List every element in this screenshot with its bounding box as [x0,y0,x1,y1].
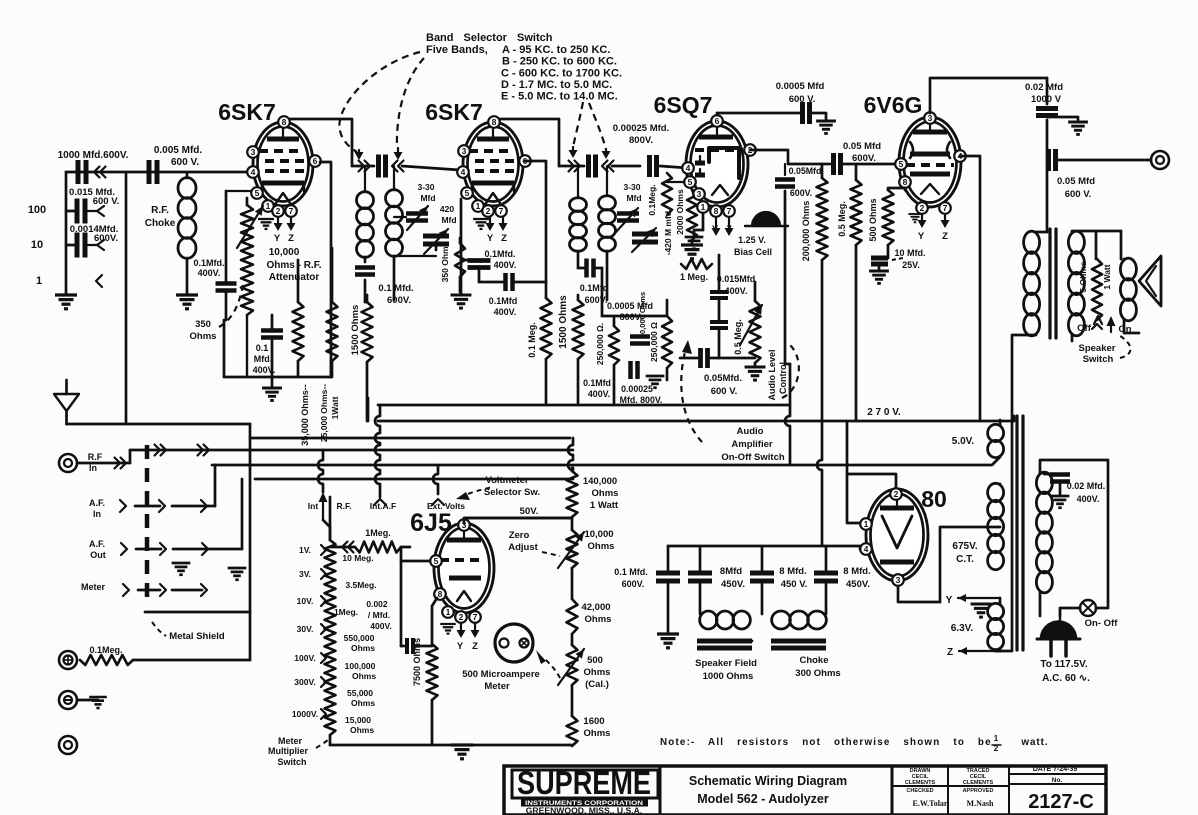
svg-text:0.1Meg.: 0.1Meg. [647,184,657,215]
svg-text:1 Meg.: 1 Meg. [680,272,708,282]
svg-text:100,000: 100,000 [345,661,376,671]
svg-text:1000 Ohms: 1000 Ohms [703,671,754,682]
svg-text:8 Mfd.: 8 Mfd. [843,566,870,577]
svg-text:Z: Z [942,231,948,242]
svg-text:Voltmeter: Voltmeter [485,475,528,486]
svg-text:Ohms: Ohms [352,671,376,681]
svg-text:0.1Mfd.: 0.1Mfd. [484,249,515,259]
svg-text:1500 Ohms: 1500 Ohms [350,305,361,356]
svg-text:42,000: 42,000 [581,602,610,613]
svg-text:1Meg.: 1Meg. [365,528,391,538]
svg-text:/ Mfd.: / Mfd. [368,610,390,620]
svg-text:A.C. 60 ∿.: A.C. 60 ∿. [1042,673,1090,684]
svg-text:Mfd. 800V.: Mfd. 800V. [620,395,663,405]
svg-text:On- Off: On- Off [1085,618,1119,629]
svg-text:4: 4 [461,167,466,177]
svg-text:500 Microampere: 500 Microampere [462,669,540,680]
svg-text:M.Nash: M.Nash [967,799,994,808]
svg-text:Five Bands,: Five Bands, [426,44,488,56]
svg-text:5: 5 [899,159,904,169]
svg-text:CLEMENTS: CLEMENTS [963,780,994,786]
svg-text:0.05Mfd.: 0.05Mfd. [704,373,742,384]
svg-text:1Watt: 1Watt [330,396,340,419]
svg-text:Ohms: Ohms [584,728,611,739]
svg-text:0.015Mfd: 0.015Mfd [717,274,756,284]
svg-text:R.F: R.F [88,452,103,462]
svg-text:600 V.: 600 V. [789,94,816,105]
svg-text:Z: Z [947,647,953,658]
svg-text:4: 4 [864,544,869,554]
svg-text:1: 1 [476,201,481,211]
svg-text:C - 600 KC. to 1700 KC.: C - 600 KC. to 1700 KC. [501,68,622,80]
svg-text:2: 2 [459,612,464,622]
svg-text:1 Watt: 1 Watt [590,500,619,511]
svg-text:D - 1.7 MC. to 5.0 MC.: D - 1.7 MC. to 5.0 MC. [501,79,612,91]
svg-text:7500 Ohms: 7500 Ohms [412,638,422,686]
svg-text:Y: Y [712,224,719,235]
svg-text:0.0005 Mfd: 0.0005 Mfd [776,81,825,92]
svg-text:Note:- All resistors not ot: Note:- All resistors not otherwise shown… [660,737,992,748]
svg-text:140,000: 140,000 [583,476,617,487]
svg-text:3: 3 [462,146,467,156]
svg-text:Switch: Switch [277,757,306,767]
svg-text:25,000 Ohms--: 25,000 Ohms-- [319,384,329,442]
svg-text:0.1Mfd: 0.1Mfd [583,378,611,388]
svg-text:7: 7 [499,206,504,216]
svg-text:Ohms - R.F.: Ohms - R.F. [266,260,321,271]
svg-text:Int: Int [308,501,319,511]
svg-text:1.25 V.: 1.25 V. [738,235,766,245]
svg-text:0.00025 Mfd.: 0.00025 Mfd. [613,123,670,134]
svg-text:A.F.: A.F. [89,539,105,549]
svg-text:7: 7 [943,203,948,213]
svg-text:3-30: 3-30 [623,182,640,192]
svg-text:400V.: 400V. [198,268,221,278]
svg-text:400V.: 400V. [370,621,391,631]
svg-text:0.002: 0.002 [366,599,388,609]
svg-text:35,000 Ohms--: 35,000 Ohms-- [300,384,310,446]
svg-text:Ohms: Ohms [592,488,619,499]
svg-text:600V.: 600V. [790,188,812,198]
svg-text:Ohms: Ohms [350,725,374,735]
svg-text:0.1 Mfd.: 0.1 Mfd. [614,567,648,577]
svg-text:675V.: 675V. [952,541,977,552]
svg-text:450V.: 450V. [846,579,870,590]
svg-text:Audio: Audio [737,426,764,437]
svg-text:Mfd.: Mfd. [254,354,273,364]
svg-text:4: 4 [686,163,691,173]
svg-text:10: 10 [31,239,43,251]
svg-text:50V.: 50V. [520,506,539,517]
svg-text:600 V.: 600 V. [93,196,120,207]
svg-text:1600: 1600 [583,716,604,727]
svg-text:6: 6 [313,156,318,166]
svg-text:5 Ohms: 5 Ohms [1078,261,1088,292]
svg-text:8: 8 [438,589,443,599]
svg-text:7: 7 [289,206,294,216]
svg-text:10 Meg.: 10 Meg. [342,553,373,563]
svg-text:400V.: 400V. [725,286,748,296]
svg-text:600V.: 600V. [94,233,118,244]
svg-text:DATE 7-24-39: DATE 7-24-39 [1033,766,1078,773]
svg-text:Meter: Meter [484,681,510,692]
svg-text:25V.: 25V. [902,260,920,270]
svg-text:In: In [93,509,101,519]
svg-text:Bias Cell: Bias Cell [734,247,772,257]
svg-text:Speaker Field: Speaker Field [695,658,757,669]
svg-text:250,000 Ω: 250,000 Ω [649,322,659,362]
svg-text:Adjust: Adjust [508,542,538,553]
svg-text:E.W.Tolar: E.W.Tolar [913,799,948,808]
svg-text:100: 100 [28,204,46,216]
svg-text:Attenuator: Attenuator [269,272,320,283]
svg-text:To 117.5V.: To 117.5V. [1040,659,1087,670]
svg-text:550,000: 550,000 [344,633,375,643]
svg-text:8: 8 [282,117,287,127]
svg-text:0.1: 0.1 [256,343,269,353]
svg-text:(Cal.): (Cal.) [585,679,609,690]
svg-text:0.1Mfd.: 0.1Mfd. [193,258,224,268]
svg-text:Switch: Switch [1083,354,1114,365]
svg-text:Ohms: Ohms [585,614,612,625]
svg-text:E - 5.0 MC. to 14.0 MC.: E - 5.0 MC. to 14.0 MC. [501,91,618,103]
svg-text:Y: Y [918,231,925,242]
svg-text:0.1Mfd: 0.1Mfd [580,283,609,293]
svg-text:Z: Z [472,641,478,652]
svg-text:In: In [89,463,97,473]
svg-text:30V.: 30V. [297,624,314,634]
svg-text:B - 250 KC. to 600 KC.: B - 250 KC. to 600 KC. [502,56,617,68]
svg-text:1000 Mfd.600V.: 1000 Mfd.600V. [58,150,129,161]
svg-text:0.02 Mfd.: 0.02 Mfd. [1067,481,1106,491]
svg-text:2: 2 [486,206,491,216]
svg-text:600V.: 600V. [852,153,876,164]
svg-text:watt.: watt. [1020,737,1048,748]
svg-text:10,000: 10,000 [269,247,300,258]
svg-text:APPROVED: APPROVED [963,788,994,794]
svg-text:Control: Control [778,362,788,394]
svg-text:5.0V.: 5.0V. [952,436,975,447]
svg-text:SUPREME: SUPREME [517,765,651,801]
svg-text:Multiplier: Multiplier [268,746,308,756]
svg-text:3: 3 [896,575,901,585]
svg-text:1 Watt: 1 Watt [1102,264,1112,289]
svg-text:300V.: 300V. [294,677,315,687]
svg-text:600 V.: 600 V. [171,157,199,168]
svg-text:Y: Y [487,233,494,244]
svg-text:400V.: 400V. [253,365,276,375]
svg-text:100V.: 100V. [294,653,315,663]
svg-text:1: 1 [994,734,999,743]
svg-text:350: 350 [195,319,211,330]
svg-text:6SK7: 6SK7 [218,99,276,125]
svg-text:0.1 Mfd.: 0.1 Mfd. [378,283,413,294]
svg-text:2: 2 [894,489,899,499]
svg-text:420: 420 [440,204,454,214]
svg-text:6: 6 [715,116,720,126]
svg-text:Meter: Meter [81,582,106,592]
svg-text:1Meg.: 1Meg. [334,607,358,617]
svg-text:Metal Shield: Metal Shield [169,631,225,642]
svg-text:Y: Y [457,641,464,652]
svg-text:15,000: 15,000 [345,715,371,725]
svg-text:Band Selector Switch: Band Selector Switch [426,32,553,44]
svg-text:4: 4 [251,167,256,177]
svg-text:Ohms: Ohms [351,643,375,653]
svg-text:Speaker: Speaker [1079,343,1116,354]
svg-text:0.02 Mfd: 0.02 Mfd [1025,82,1063,93]
svg-text:400V.: 400V. [1077,494,1100,504]
svg-text:200,000 Ohms: 200,000 Ohms [801,201,811,262]
svg-text:1: 1 [266,201,271,211]
svg-text:300 Ohms: 300 Ohms [795,668,840,679]
svg-text:Choke: Choke [145,218,176,229]
svg-text:On: On [1118,324,1131,335]
svg-text:10 Mfd.: 10 Mfd. [894,248,925,258]
svg-text:3.5Meg.: 3.5Meg. [345,580,376,590]
svg-text:8: 8 [714,206,719,216]
svg-text:Off: Off [1077,323,1092,334]
svg-text:1000V.: 1000V. [292,709,318,719]
svg-text:CHECKED: CHECKED [906,788,933,794]
svg-text:Mfd: Mfd [420,193,435,203]
svg-text:400V.: 400V. [494,260,517,270]
svg-text:Choke: Choke [799,655,828,666]
svg-text:450 V.: 450 V. [781,579,808,590]
svg-text:1: 1 [36,275,42,287]
svg-text:8: 8 [492,117,497,127]
svg-text:0.00025: 0.00025 [621,384,653,394]
svg-text:2: 2 [276,206,281,216]
svg-text:1: 1 [864,519,869,529]
svg-text:7: 7 [727,206,732,216]
svg-text:3V.: 3V. [299,569,311,579]
svg-text:6SQ7: 6SQ7 [654,92,713,118]
svg-text:Z: Z [501,233,507,244]
svg-text:2: 2 [920,203,925,213]
svg-text:1500 Ohms: 1500 Ohms [558,295,569,349]
svg-text:Selector Sw.: Selector Sw. [484,487,540,498]
svg-text:A.F.: A.F. [89,498,105,508]
svg-text:3: 3 [928,113,933,123]
svg-text:Y: Y [946,595,953,606]
svg-text:8: 8 [903,177,908,187]
svg-text:On-Off Switch: On-Off Switch [721,452,785,463]
svg-text:6SK7: 6SK7 [425,99,483,125]
svg-text:Mfd: Mfd [441,215,456,225]
svg-text:500 Ohms: 500 Ohms [868,198,878,241]
svg-text:Ohms: Ohms [588,541,615,552]
svg-text:0.5 Meg.: 0.5 Meg. [733,319,743,355]
svg-text:350 Ohms: 350 Ohms [440,241,450,282]
svg-text:R.F.: R.F. [336,501,351,511]
svg-text:0.1Meg.: 0.1Meg. [89,645,122,655]
svg-text:Model 562 - Audolyzer: Model 562 - Audolyzer [697,792,829,806]
svg-text:800V.: 800V. [629,135,653,146]
svg-text:C.T.: C.T. [956,554,974,565]
svg-text:0.5 Meg.: 0.5 Meg. [837,201,847,237]
svg-text:Ohms: Ohms [351,698,375,708]
svg-text:600 V.: 600 V. [711,386,738,397]
svg-text:R.F.: R.F. [151,205,169,216]
svg-text:3: 3 [251,147,256,157]
svg-text:80: 80 [921,486,947,512]
svg-text:Mfd: Mfd [626,193,641,203]
svg-text:450V.: 450V. [721,579,745,590]
svg-text:A - 95 KC. to 250 KC.: A - 95 KC. to 250 KC. [502,44,610,56]
svg-text:No.: No. [1052,777,1063,784]
svg-text:10V.: 10V. [297,596,314,606]
svg-text:1: 1 [701,202,706,212]
svg-text:600V.: 600V. [387,295,411,306]
svg-text:600 V.: 600 V. [1065,189,1092,200]
svg-text:8Mfd: 8Mfd [720,566,742,577]
svg-text:Z: Z [726,224,732,235]
svg-text:8 Mfd.: 8 Mfd. [779,566,806,577]
svg-text:0.05 Mfd: 0.05 Mfd [1057,176,1095,187]
svg-text:6.3V.: 6.3V. [951,623,974,634]
svg-text:0.05Mfd: 0.05Mfd [789,166,822,176]
svg-text:2127-C: 2127-C [1028,791,1094,813]
svg-text:Ohms: Ohms [584,667,611,678]
svg-text:5: 5 [434,556,439,566]
svg-text:2000 Ohms: 2000 Ohms [675,189,685,235]
svg-text:600V.: 600V. [585,295,608,305]
svg-text:Meter: Meter [278,736,303,746]
svg-text:Audio Level: Audio Level [767,349,777,400]
svg-text:0.005 Mfd.: 0.005 Mfd. [154,145,203,156]
svg-text:Amplifier: Amplifier [731,439,772,450]
svg-text:3-30: 3-30 [417,182,434,192]
svg-text:Out: Out [90,550,106,560]
svg-text:55,000: 55,000 [347,688,373,698]
svg-text:400V.: 400V. [494,307,517,317]
svg-text:0.1Mfd: 0.1Mfd [489,296,518,306]
svg-text:0.1 Meg.: 0.1 Meg. [527,322,537,358]
svg-text:600V.: 600V. [622,579,645,589]
svg-text:400V.: 400V. [588,389,610,399]
svg-text:Ohms: Ohms [190,331,217,342]
svg-text:Zero: Zero [509,530,530,541]
svg-text:250,000 Ω.: 250,000 Ω. [595,323,605,365]
svg-text:CLEMENTS: CLEMENTS [905,780,936,786]
svg-text:2 7 0 V.: 2 7 0 V. [867,407,901,418]
svg-text:6V6G: 6V6G [864,92,923,118]
svg-text:500: 500 [587,655,603,666]
svg-text:10,000: 10,000 [584,529,613,540]
svg-text:5: 5 [465,188,470,198]
svg-text:1: 1 [446,607,451,617]
svg-text:Y: Y [274,233,281,244]
svg-text:5: 5 [255,188,260,198]
svg-text:-420 M mfd.: -420 M mfd. [663,209,673,256]
svg-text:3: 3 [697,189,702,199]
svg-text:7: 7 [473,612,478,622]
svg-text:GREENWOOD, MISS., U.S.A.: GREENWOOD, MISS., U.S.A. [526,806,643,815]
svg-text:1V.: 1V. [299,545,311,555]
svg-text:Schematic Wiring Diagram: Schematic Wiring Diagram [689,774,847,788]
svg-text:5: 5 [688,177,693,187]
svg-text:Z: Z [288,233,294,244]
svg-text:0.05 Mfd: 0.05 Mfd [843,141,881,152]
